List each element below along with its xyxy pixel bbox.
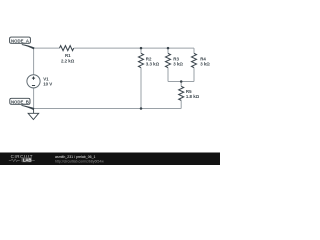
svg-text:3 kΩ: 3 kΩ — [173, 61, 183, 66]
junction: R2 bottom — [140, 107, 143, 110]
resistor R2 — [139, 53, 144, 67]
wire: top horizontal, node A to R1 left lead — [34, 47, 60, 49]
svg-text:LAB: LAB — [23, 158, 32, 163]
wire: left vertical below V1 — [33, 88, 35, 109]
svg-text:R1: R1 — [65, 53, 71, 58]
resistor R5 — [179, 86, 184, 100]
voltage source V1 — [27, 75, 40, 88]
wire: R3 top lead — [167, 48, 169, 53]
wire: middle horizontal joining R3 and R4 bottoms — [168, 81, 194, 83]
wire: R4 bottom lead — [193, 68, 195, 82]
wire: left vertical above V1 — [33, 48, 35, 75]
junction: R3 top — [167, 47, 170, 50]
svg-text:R5: R5 — [186, 89, 192, 94]
svg-text:NODE_B: NODE_B — [11, 100, 29, 105]
svg-text:2.2 kΩ: 2.2 kΩ — [61, 58, 75, 63]
ground — [28, 109, 39, 120]
svg-text:R4: R4 — [200, 56, 206, 61]
wire: R5 bottom lead — [180, 100, 182, 108]
svg-text:1.8 kΩ: 1.8 kΩ — [186, 94, 200, 99]
resistor R1 — [60, 46, 74, 51]
wire: top horizontal, R1 right lead to R4 corner — [74, 47, 194, 49]
resistor R3 — [166, 53, 171, 67]
node B flag — [10, 98, 35, 110]
svg-text:3.3 kΩ: 3.3 kΩ — [146, 61, 160, 66]
svg-text:NODE_A: NODE_A — [11, 38, 29, 43]
junction: R5 top — [180, 80, 183, 83]
svg-text:asmith_231 / prelab_06_1: asmith_231 / prelab_06_1 — [55, 155, 96, 159]
resistor R4 — [192, 53, 197, 67]
svg-text:V1: V1 — [43, 77, 49, 82]
svg-text:3 kΩ: 3 kΩ — [200, 61, 210, 66]
wire: R4 top lead — [193, 48, 195, 53]
svg-text:http://circuitlab.com/c/b8y6t5: http://circuitlab.com/c/b8y6t54w — [55, 159, 104, 163]
svg-text:R2: R2 — [146, 56, 152, 61]
wire: R3 bottom lead — [167, 68, 169, 82]
svg-text:R3: R3 — [173, 56, 179, 61]
wire: R2 top lead — [140, 48, 142, 53]
wire: R5 top lead — [180, 82, 182, 87]
junction: R2 top — [140, 47, 143, 50]
svg-text:10 V: 10 V — [43, 82, 52, 87]
node A flag — [10, 37, 35, 49]
wire: bottom horizontal — [34, 108, 182, 110]
footer watermark bar — [0, 153, 220, 166]
wire: R2 bottom lead — [140, 68, 142, 109]
